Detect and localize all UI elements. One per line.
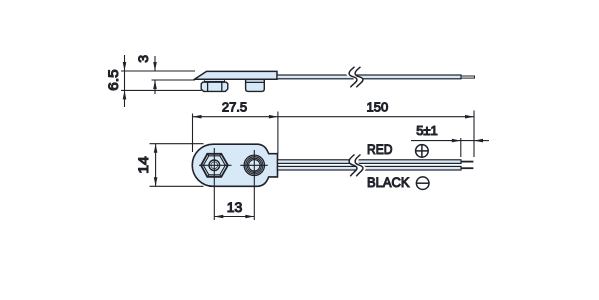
dimension 6.5 extension top line <box>121 70 195 72</box>
svg-text:5±1: 5±1 <box>416 123 438 138</box>
dimension 3 line bottom <box>154 80 156 94</box>
dimension 5±1 arrow right <box>474 139 483 143</box>
dimension 5±1 left extension <box>460 138 462 157</box>
round terminal centerline vertical <box>253 150 255 220</box>
hex terminal inner <box>203 156 225 175</box>
polarity minus symbol <box>416 177 429 190</box>
svg-text:6.5: 6.5 <box>105 69 121 91</box>
svg-text:13: 13 <box>227 199 243 215</box>
dimension 5±1 line <box>411 140 474 142</box>
wire black bare tip <box>461 167 474 169</box>
side view stud tab <box>246 79 265 91</box>
dimension 3 arrow top <box>153 62 157 71</box>
polarity plus symbol <box>416 145 429 158</box>
hex terminal outer <box>201 154 228 177</box>
dimension 6.5 arrow top <box>123 62 127 71</box>
side view hex socket <box>201 82 228 91</box>
dimension 13 arrow left <box>214 215 223 219</box>
dimension 27.5 arrow left <box>193 115 202 119</box>
dimension 14 arrow bottom <box>154 177 158 186</box>
hex terminal corner lines <box>201 164 203 166</box>
side view wire bare tip <box>461 76 475 78</box>
wire black insulated <box>278 166 462 170</box>
dimension 3 line top <box>154 56 156 71</box>
side view plate <box>195 71 278 79</box>
round terminal rings <box>244 155 264 175</box>
dimension 6.5 arrow bottom <box>123 90 127 99</box>
side view wire insulated <box>277 75 461 79</box>
dimension 14 extension top <box>150 143 204 145</box>
dimension 3 extension line <box>152 79 196 81</box>
dimension 150 right extension <box>473 111 475 158</box>
svg-text:14: 14 <box>135 156 151 174</box>
svg-text:27.5: 27.5 <box>222 100 247 115</box>
dimension 14 line <box>155 144 157 187</box>
svg-text:RED: RED <box>367 141 393 157</box>
dimension 6.5 extension bottom line <box>121 89 202 91</box>
hex terminal centerline horizontal <box>199 164 232 166</box>
svg-text:3: 3 <box>135 55 151 63</box>
dimension 27.5 extension left <box>192 114 194 153</box>
dimension 150 arrow right <box>465 115 474 119</box>
dimension 150 line <box>278 116 474 118</box>
hex terminal centerline vertical <box>213 148 215 220</box>
side view break mark <box>346 67 363 88</box>
dimension 5±1 right tail <box>474 140 489 142</box>
dimension 14 arrow top <box>154 144 158 153</box>
dimension 5±1 arrow left <box>452 139 461 143</box>
svg-text:BLACK: BLACK <box>367 174 410 190</box>
dimension 13 line <box>214 216 254 218</box>
hex terminal circle <box>209 160 220 171</box>
dimension 27.5 and 150 shared extension <box>277 112 279 154</box>
wire red bare tip <box>461 161 474 163</box>
dimension 27.5 arrow right <box>269 115 278 119</box>
wire red insulated <box>278 160 462 164</box>
dimension 3 arrow bottom <box>153 80 157 89</box>
dimension 13 arrow right <box>245 215 254 219</box>
dimension 27.5 line <box>193 116 278 118</box>
side view washer line under plate <box>204 80 224 82</box>
plan view break mark <box>349 155 366 177</box>
dimension 6.5 line <box>124 55 126 107</box>
plan view body <box>192 144 277 186</box>
dimension 14 extension bottom <box>150 185 204 187</box>
svg-text:150: 150 <box>367 99 389 114</box>
round terminal centerline horizontal <box>240 164 267 166</box>
